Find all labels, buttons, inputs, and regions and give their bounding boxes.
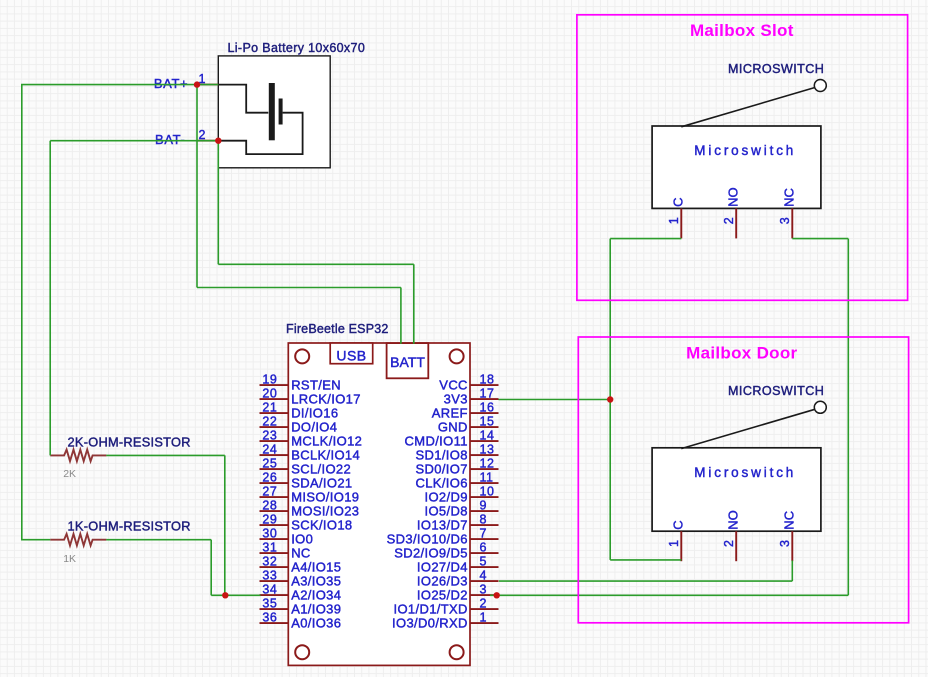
svg-text:USB: USB (336, 348, 366, 364)
svg-text:13: 13 (480, 442, 495, 456)
wire slot NC horizontal (792, 238, 848, 240)
U1 right pin 13 SD1/IO8 (415, 442, 498, 462)
battery pin 1 leg (197, 84, 218, 86)
U1 right pin 6 SD2/IO9/D5 (394, 540, 498, 560)
svg-text:36: 36 (262, 610, 277, 624)
svg-text:5: 5 (480, 554, 487, 568)
U1 left pin 21 DI/IO16 (260, 400, 339, 420)
svg-text:21: 21 (262, 400, 277, 414)
svg-text:C: C (671, 198, 686, 207)
node 3V3 junction (607, 396, 613, 402)
svg-text:30: 30 (262, 526, 277, 540)
svg-text:2K-OHM-RESISTOR: 2K-OHM-RESISTOR (68, 434, 191, 449)
wire R2 output horizontal (106, 539, 211, 541)
svg-text:DI/IO16: DI/IO16 (291, 405, 338, 420)
wire divider to pin34 A2/IO34 (211, 594, 260, 596)
U1 left pin 30 IO0 (260, 526, 314, 546)
U1 left pin 26 SDA/IO21 (260, 470, 353, 490)
svg-text:Mailbox Slot: Mailbox Slot (690, 21, 794, 40)
battery pin 2 leg (197, 140, 218, 142)
U1 left pin 36 A0/IO36 (260, 610, 342, 630)
svg-text:MICROSWITCH: MICROSWITCH (728, 62, 824, 76)
U1 BATT connector box (387, 343, 429, 378)
svg-text:35: 35 (262, 596, 277, 610)
U1 corner hole bottom-left (295, 645, 309, 659)
svg-text:IO1/D1/TXD: IO1/D1/TXD (394, 601, 468, 616)
wire 3V3 to junction (499, 399, 611, 401)
U1 right pin 7 SD3/IO10/D6 (387, 526, 499, 546)
wire battery pin2 down vertical (217, 141, 219, 265)
svg-text:A4/IO15: A4/IO15 (291, 559, 341, 574)
svg-text:4: 4 (480, 568, 487, 582)
resistor R1 2K-OHM zigzag with leads (50, 450, 106, 462)
svg-text:CMD/IO11: CMD/IO11 (405, 433, 468, 448)
svg-text:SCL/IO22: SCL/IO22 (291, 461, 351, 476)
svg-text:FireBeetle ESP32: FireBeetle ESP32 (286, 322, 389, 336)
svg-text:1K: 1K (63, 553, 76, 565)
U1 right pin 5 IO27/D4 (417, 554, 499, 574)
svg-text:IO3/D0/RXD: IO3/D0/RXD (392, 615, 468, 630)
svg-text:14: 14 (480, 428, 495, 442)
wire door C horizontal (610, 559, 681, 561)
svg-text:NO: NO (725, 187, 740, 207)
door switch S2 pin 1 C leg (680, 531, 682, 561)
node battery pin2 junction (215, 138, 221, 144)
svg-text:Mailbox Door: Mailbox Door (686, 344, 797, 363)
svg-text:MISO/IO19: MISO/IO19 (291, 489, 359, 504)
U1 left pin 24 BCLK/IO14 (260, 442, 361, 462)
mailbox slot enclosure frame (577, 15, 908, 301)
svg-text:15: 15 (480, 414, 495, 428)
battery BT1 body (218, 56, 330, 168)
svg-text:MCLK/IO12: MCLK/IO12 (291, 433, 362, 448)
svg-text:2: 2 (480, 596, 487, 610)
door switch S2 lever arm (681, 409, 815, 448)
svg-text:C: C (671, 520, 686, 529)
U1 left pin 33 A3/IO35 (260, 568, 342, 588)
wire slot NC to pin3 IO25/D2 (490, 594, 848, 596)
svg-text:BATT: BATT (390, 354, 425, 370)
mailbox door enclosure frame (578, 337, 908, 623)
svg-text:IO25/D2: IO25/D2 (417, 587, 468, 602)
U1 left pin 31 NC (260, 540, 311, 560)
slot switch S1 lever roller circle (814, 80, 826, 92)
svg-text:33: 33 (262, 568, 277, 582)
svg-text:SCK/IO18: SCK/IO18 (291, 517, 352, 532)
svg-text:IO27/D4: IO27/D4 (417, 559, 468, 574)
door switch S2 microswitch body (652, 448, 821, 531)
svg-text:34: 34 (262, 582, 277, 596)
svg-text:20: 20 (262, 386, 277, 400)
wire BAT- horizontal (50, 140, 218, 142)
U1 left pin 19 RST/EN (260, 372, 341, 392)
slot switch S1 pin 2 NO leg (735, 208, 737, 238)
U1 corner hole top-right (450, 349, 464, 363)
svg-text:3: 3 (778, 540, 792, 547)
svg-text:MICROSWITCH: MICROSWITCH (728, 384, 824, 398)
svg-text:SDA/IO21: SDA/IO21 (291, 475, 352, 490)
svg-text:19: 19 (262, 372, 277, 386)
U1 right pin 12 SD0/IO7 (415, 456, 498, 476)
wire battery pin1 down vertical (196, 85, 198, 288)
svg-text:12: 12 (480, 456, 495, 470)
wire battery pin1 to BATT horizontal (197, 287, 401, 289)
battery negative plate (279, 99, 283, 125)
wire door NC to pin4 IO26/D3 (499, 580, 792, 582)
resistor R2 1K-OHM zigzag with leads (50, 534, 106, 546)
U1 right pin 8 IO13/D7 (417, 512, 499, 532)
svg-text:3V3: 3V3 (444, 391, 468, 406)
svg-text:7: 7 (480, 526, 487, 540)
U1 right pin 18 VCC (439, 372, 498, 392)
node battery pin1 junction (194, 81, 200, 87)
U1 left pin 22 DO/IO4 (260, 414, 338, 434)
svg-text:IO13/D7: IO13/D7 (417, 517, 468, 532)
svg-text:RST/EN: RST/EN (291, 377, 341, 392)
svg-text:2: 2 (722, 217, 736, 224)
U1 left pin 34 A2/IO34 (260, 582, 342, 602)
node pin3 IO25/D2 junction (494, 592, 500, 598)
slot switch S1 lever arm (681, 87, 815, 126)
svg-text:Microswitch: Microswitch (694, 465, 796, 480)
svg-text:Li-Po Battery 10x60x70: Li-Po Battery 10x60x70 (228, 41, 366, 55)
svg-text:NC: NC (782, 188, 797, 207)
svg-text:22: 22 (262, 414, 277, 428)
svg-text:23: 23 (262, 428, 277, 442)
node divider junction (222, 592, 228, 598)
svg-text:29: 29 (262, 512, 277, 526)
wire slot C horizontal (610, 238, 681, 240)
wire BAT- rail vertical to R1 (49, 141, 51, 456)
svg-text:31: 31 (262, 540, 277, 554)
wire R1 output vertical (224, 455, 226, 595)
wire BAT+ horizontal (21, 84, 218, 86)
svg-text:VCC: VCC (439, 377, 468, 392)
U1 left pin 25 SCL/IO22 (260, 456, 352, 476)
svg-text:IO26/D3: IO26/D3 (417, 573, 468, 588)
svg-text:SD2/IO9/D5: SD2/IO9/D5 (394, 545, 468, 560)
svg-text:DO/IO4: DO/IO4 (291, 419, 337, 434)
svg-text:BAT-: BAT- (155, 132, 185, 147)
battery internal wire from pin 1 to positive plate (218, 85, 268, 113)
wire slot NC vertical (847, 239, 849, 596)
svg-text:A0/IO36: A0/IO36 (291, 615, 341, 630)
svg-text:IO0: IO0 (291, 531, 313, 546)
svg-text:16: 16 (480, 400, 495, 414)
U1 right pin 10 IO2/D9 (425, 484, 499, 504)
svg-text:18: 18 (480, 372, 495, 386)
svg-text:GND: GND (438, 419, 468, 434)
svg-text:BCLK/IO14: BCLK/IO14 (291, 447, 360, 462)
svg-text:Microswitch: Microswitch (694, 143, 796, 158)
svg-text:1K-OHM-RESISTOR: 1K-OHM-RESISTOR (68, 519, 191, 534)
svg-text:1: 1 (667, 217, 681, 224)
door switch S2 pin 2 NO leg (735, 531, 737, 561)
svg-text:3: 3 (480, 582, 487, 596)
U1 left pin 29 SCK/IO18 (260, 512, 353, 532)
svg-text:CLK/IO6: CLK/IO6 (415, 475, 467, 490)
wire C net vertical (609, 239, 611, 560)
svg-text:8: 8 (480, 512, 487, 526)
svg-text:NC: NC (782, 511, 797, 530)
wire R1 output horizontal (106, 454, 225, 456)
svg-text:BAT+: BAT+ (154, 76, 188, 91)
svg-text:3: 3 (778, 217, 792, 224)
wire battery pin2 to BATT horizontal (218, 263, 413, 265)
U1 right pin 4 IO26/D3 (417, 568, 499, 588)
slot switch S1 microswitch body (652, 126, 821, 208)
svg-text:24: 24 (262, 442, 277, 456)
svg-text:17: 17 (480, 386, 495, 400)
U1 corner hole bottom-right (450, 645, 464, 659)
svg-text:IO5/D8: IO5/D8 (425, 503, 468, 518)
battery positive plate (269, 83, 275, 140)
U1 right pin 1 IO3/D0/RXD (392, 610, 498, 630)
U1 right pin 14 CMD/IO11 (405, 428, 499, 448)
svg-text:A2/IO34: A2/IO34 (291, 587, 341, 602)
U1 left pin 35 A1/IO39 (260, 596, 342, 616)
svg-text:27: 27 (262, 484, 277, 498)
svg-text:AREF: AREF (432, 405, 468, 420)
svg-text:A3/IO35: A3/IO35 (291, 573, 341, 588)
U1 corner hole top-left (295, 349, 309, 363)
svg-text:NO: NO (725, 510, 740, 530)
wire BAT+ left rail vertical (21, 85, 23, 540)
slot switch S1 pin 3 NC leg (791, 208, 793, 238)
U1 right pin 2 IO1/D1/TXD (394, 596, 499, 616)
svg-text:9: 9 (480, 498, 487, 512)
svg-text:SD0/IO7: SD0/IO7 (415, 461, 467, 476)
microcontroller U1 FireBeetle ESP32 body (288, 343, 470, 665)
svg-text:MOSI/IO23: MOSI/IO23 (291, 503, 359, 518)
U1 right pin 3 IO25/D2 (417, 582, 499, 602)
U1 left pin 32 A4/IO15 (260, 554, 342, 574)
svg-text:2: 2 (722, 540, 736, 547)
wire BAT+ to R2 horizontal (21, 539, 50, 541)
wire door NC vertical (791, 561, 793, 582)
svg-text:25: 25 (262, 456, 277, 470)
U1 left pin 23 MCLK/IO12 (260, 428, 363, 448)
U1 left pin 27 MISO/IO19 (260, 484, 360, 504)
svg-text:1: 1 (480, 610, 487, 624)
svg-text:32: 32 (262, 554, 277, 568)
svg-text:10: 10 (480, 484, 495, 498)
svg-text:28: 28 (262, 498, 277, 512)
svg-text:IO2/D9: IO2/D9 (425, 489, 468, 504)
svg-text:2K: 2K (63, 468, 76, 480)
svg-text:11: 11 (480, 470, 494, 484)
U1 USB connector box (330, 343, 373, 364)
svg-text:26: 26 (262, 470, 277, 484)
svg-text:LRCK/IO17: LRCK/IO17 (291, 391, 361, 406)
U1 right pin 16 AREF (432, 400, 499, 420)
door switch S2 lever roller circle (814, 401, 826, 413)
svg-text:NC: NC (291, 545, 310, 560)
slot switch S1 pin 1 C leg (680, 208, 682, 238)
wire BATT pin vertical a (400, 288, 402, 344)
wire R2 output vertical (210, 540, 212, 596)
svg-text:A1/IO39: A1/IO39 (291, 601, 341, 616)
svg-text:SD1/IO8: SD1/IO8 (415, 447, 467, 462)
svg-text:6: 6 (480, 540, 487, 554)
U1 right pin 11 CLK/IO6 (415, 470, 498, 490)
U1 left pin 20 LRCK/IO17 (260, 386, 361, 406)
U1 right pin 15 GND (438, 414, 499, 434)
door switch S2 pin 3 NC leg (791, 531, 793, 561)
U1 left pin 28 MOSI/IO23 (260, 498, 360, 518)
battery internal wire from negative plate to pin 2 (218, 113, 302, 154)
svg-text:SD3/IO10/D6: SD3/IO10/D6 (387, 531, 468, 546)
wire BATT pin vertical b (413, 264, 415, 344)
svg-text:1: 1 (667, 540, 681, 547)
U1 right pin 17 3V3 (444, 386, 499, 406)
U1 right pin 9 IO5/D8 (425, 498, 499, 518)
